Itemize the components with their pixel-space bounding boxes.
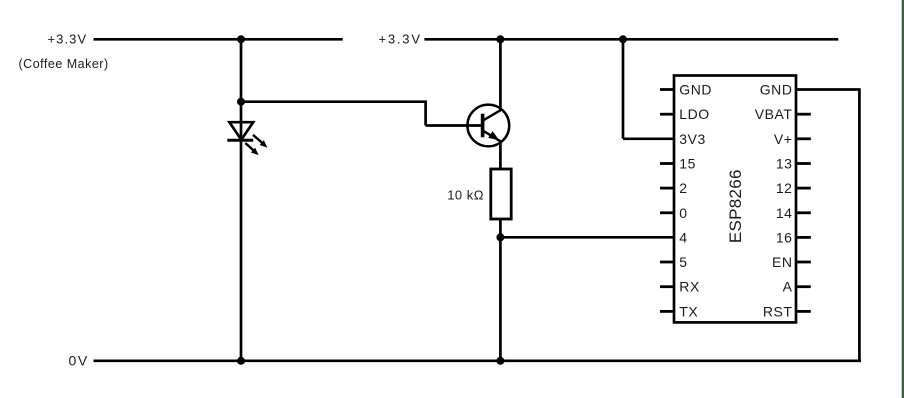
pin stub 12 [796, 187, 811, 190]
wire 3V3 branch horizontal to pin [623, 137, 674, 140]
wire emitter to resistor [499, 141, 502, 169]
junction 0V rail / LED cathode [237, 357, 245, 365]
pin stub LDO [660, 113, 674, 116]
wire +3.3V coffee maker rail [94, 38, 343, 41]
svg-text:A: A [783, 279, 793, 295]
svg-text:14: 14 [776, 205, 793, 221]
svg-text:0V: 0V [68, 352, 88, 368]
svg-text:RX: RX [679, 279, 700, 295]
svg-text:VBAT: VBAT [755, 106, 793, 122]
decorative green page edge [902, 0, 904, 398]
pin stub RX [660, 285, 674, 288]
svg-text:+3.3V: +3.3V [378, 32, 421, 47]
svg-text:4: 4 [679, 229, 687, 245]
pin stub EN [796, 261, 811, 264]
pin stub 5 [660, 261, 674, 264]
pin stub 15 [660, 162, 674, 165]
pin stub TX [660, 310, 674, 313]
svg-text:16: 16 [776, 229, 793, 245]
pin stub VBAT [796, 113, 811, 116]
svg-text:+3.3V: +3.3V [47, 32, 87, 47]
svg-text:0: 0 [679, 205, 687, 221]
LED D1 [227, 122, 267, 155]
wire +3.3V main rail [424, 38, 838, 41]
svg-text:GND: GND [679, 82, 712, 98]
IC U1 ESP8266 body [674, 76, 796, 323]
svg-text:15: 15 [679, 156, 696, 172]
pin stub 0 [660, 211, 674, 214]
pin stub 2 [660, 187, 674, 190]
pin stub 16 [796, 236, 811, 239]
svg-text:V+: V+ [774, 131, 793, 147]
svg-text:10 kΩ: 10 kΩ [447, 188, 484, 203]
svg-text:EN: EN [772, 254, 793, 270]
svg-text:ESP8266: ESP8266 [726, 169, 745, 243]
svg-text:13: 13 [776, 156, 793, 172]
wire 3V3 branch vertical [622, 39, 625, 139]
pin stub RST [796, 310, 811, 313]
pin stub A [796, 285, 811, 288]
junction resistor bottom / pin 4 branch [496, 233, 504, 241]
wire resistor bottom to 0V rail [499, 219, 502, 361]
pin stub GND left [660, 88, 674, 91]
svg-text:RST: RST [763, 303, 793, 319]
svg-text:LDO: LDO [679, 106, 709, 122]
svg-text:(Coffee Maker): (Coffee Maker) [19, 57, 109, 71]
transistor Q1 (NPN) [467, 105, 509, 147]
wire to ESP8266 pin 4 [500, 236, 674, 239]
wire GND (right) to 0V rail horizontal [796, 88, 859, 91]
junction main rail / 3V3 branch [619, 35, 627, 43]
junction main rail / transistor collector [496, 35, 504, 43]
wire base branch into transistor base [426, 124, 483, 127]
svg-text:12: 12 [776, 180, 793, 196]
pin stub 14 [796, 211, 811, 214]
wire base branch horizontal from LED junction [241, 100, 426, 103]
svg-text:2: 2 [679, 180, 687, 196]
wire collector to +3.3V rail [499, 39, 502, 110]
svg-text:GND: GND [760, 82, 793, 98]
junction 0V rail / resistor branch [496, 357, 504, 365]
svg-text:3V3: 3V3 [679, 131, 706, 147]
wire 0V rail [94, 359, 862, 362]
wire base branch vertical drop [424, 100, 427, 125]
resistor R1 10 kOhm [491, 169, 511, 219]
wire LED branch vertical [240, 39, 243, 361]
pin stub V+ [796, 137, 811, 140]
junction LED anode / base branch [237, 98, 245, 106]
junction on coffee maker rail at LED branch [237, 35, 245, 43]
svg-text:TX: TX [679, 303, 698, 319]
svg-text:5: 5 [679, 254, 687, 270]
pin stub 13 [796, 162, 811, 165]
wire GND (right) to 0V rail vertical [858, 88, 861, 361]
